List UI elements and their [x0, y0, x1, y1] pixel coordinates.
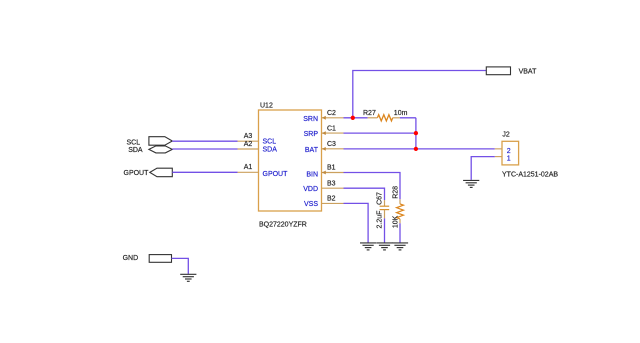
junction BAT	[414, 147, 418, 151]
pin SRP C1	[304, 125, 344, 138]
wire BIN	[344, 173, 401, 200]
svg-text:SRN: SRN	[303, 116, 318, 123]
wire SCL	[172, 140, 237, 142]
wire GND port	[172, 258, 189, 274]
resistor R28	[393, 186, 404, 228]
wire vertical R27 down to BAT row	[415, 118, 417, 149]
junction at SRN/VBAT	[351, 116, 355, 120]
pin BAT C3	[305, 141, 344, 154]
wire VDD	[344, 188, 385, 200]
port GPOUT	[124, 168, 173, 177]
svg-text:VSS: VSS	[304, 201, 318, 208]
svg-text:10m: 10m	[394, 110, 408, 117]
svg-text:GND: GND	[123, 255, 139, 262]
svg-text:BQ27220YZFR: BQ27220YZFR	[259, 222, 307, 229]
ground under VSS	[360, 243, 376, 250]
port SDA	[128, 146, 172, 154]
pin VSS B2	[304, 196, 344, 208]
svg-text:10K: 10K	[393, 215, 400, 228]
port GND	[123, 255, 172, 263]
svg-text:A1: A1	[244, 164, 253, 171]
wire SRP row	[344, 132, 416, 134]
svg-text:YTC-A1251-02AB: YTC-A1251-02AB	[502, 172, 558, 179]
capacitor C67	[376, 192, 389, 229]
svg-text:BIN: BIN	[306, 171, 318, 178]
wire R27 to vertical	[400, 117, 416, 119]
svg-text:1: 1	[507, 155, 511, 162]
svg-text:U12: U12	[260, 103, 273, 110]
svg-text:C2: C2	[327, 110, 336, 117]
pin BIN B1	[306, 165, 343, 179]
port SCL	[127, 137, 173, 147]
svg-text:A3: A3	[244, 133, 253, 140]
svg-text:C67: C67	[376, 192, 383, 205]
svg-text:2: 2	[507, 148, 511, 155]
resistor R27	[363, 110, 408, 121]
svg-text:C1: C1	[327, 125, 336, 132]
svg-text:2.2uF: 2.2uF	[376, 211, 383, 229]
svg-text:R28: R28	[393, 186, 400, 199]
wire SDA	[172, 148, 237, 150]
IC U12 body	[259, 103, 322, 229]
pin SCL A3	[238, 133, 277, 146]
svg-text:GPOUT: GPOUT	[124, 170, 150, 177]
svg-text:B3: B3	[327, 180, 336, 187]
svg-text:R27: R27	[363, 110, 376, 117]
svg-text:C3: C3	[327, 141, 336, 148]
svg-text:SDA: SDA	[263, 147, 278, 154]
svg-text:SDA: SDA	[128, 147, 143, 154]
wire R28 to ground	[399, 223, 401, 243]
ground under J2	[463, 180, 479, 187]
svg-text:VDD: VDD	[303, 186, 318, 193]
svg-text:GPOUT: GPOUT	[263, 171, 289, 178]
wire BAT row to J2	[344, 148, 495, 150]
pin SDA A2	[238, 141, 278, 154]
wire GPOUT	[172, 171, 237, 173]
junction SRP	[414, 131, 418, 135]
svg-text:VBAT: VBAT	[519, 69, 537, 76]
svg-text:B1: B1	[327, 165, 336, 172]
ground under R28	[392, 243, 408, 250]
wire C67 to ground	[384, 218, 386, 243]
port VBAT	[486, 67, 537, 76]
pin VDD B3	[303, 180, 343, 192]
ground at GND port	[180, 274, 196, 281]
svg-text:J2: J2	[502, 131, 510, 138]
svg-text:SRP: SRP	[304, 131, 319, 138]
pin J2-2	[495, 148, 502, 150]
wire SRN row	[344, 117, 368, 119]
svg-text:SCL: SCL	[127, 139, 141, 146]
pin SRN C2	[303, 110, 343, 123]
svg-text:BAT: BAT	[305, 147, 319, 154]
pin J2-1	[495, 156, 502, 158]
ground under C67	[376, 243, 392, 250]
svg-text:B2: B2	[327, 196, 336, 203]
wire VBAT net	[353, 71, 487, 118]
connector J2	[502, 131, 558, 178]
wire VSS	[344, 203, 369, 243]
svg-text:SCL: SCL	[263, 139, 277, 146]
pin GPOUT A1	[238, 164, 289, 178]
wire J2 pin1 to ground	[471, 157, 495, 180]
svg-text:A2: A2	[244, 141, 253, 148]
